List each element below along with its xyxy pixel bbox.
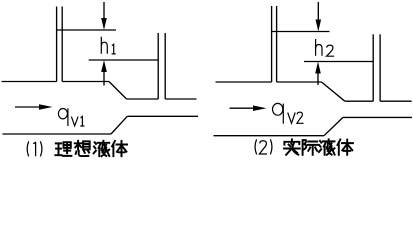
figure 1: pipe bottom contraction diagonal (111, 116, 127, 134)
figure 2: caption index (2) right parenthesis (270, 139, 272, 154)
figure 2: caption character SHI (real) (284, 139, 300, 154)
figure 2: label qv2 subscript 2 (297, 112, 304, 123)
figure 1: pipe top contraction diagonal (109, 82, 127, 100)
figure 2: caption character JI (boundary) (303, 140, 318, 155)
figure 1: water level line in tube P1 (56, 29, 116, 31)
figure 2: caption index (2) left parenthesis (255, 139, 257, 154)
figure 2: label h2 letter h (316, 39, 322, 56)
figure 2: piezometer tube P2 right wall (379, 34, 381, 101)
figure 2: caption character YE (liquid) (319, 139, 335, 154)
figure 2: pipe bottom wall wide section (214, 135, 325, 137)
figure 1: label qv1 subscript v (71, 117, 78, 126)
figure 1: pipe top wall right of tube P1 (62, 81, 109, 83)
figure 1: label qv1 subscript 1 (80, 116, 84, 126)
figure 1: caption index (1) digit 1 (33, 142, 36, 156)
figure 2: label qv2 letter q (273, 103, 284, 123)
figure 2: water level line of tube P2 (dimension reference) (304, 61, 373, 63)
figure 1: label h1 letter h (101, 37, 107, 54)
figure 2: label h2 subscript 2 (327, 45, 335, 56)
figure 1: narrow pipe top wall left of tube P2 (127, 98, 159, 100)
figure 2: pipe top wall right of tube P1 (277, 81, 322, 83)
figure 1: dimension h1 down arrowhead (101, 18, 107, 30)
figure 2: caption index (2) digit 2 (259, 141, 267, 154)
figure 2: narrow pipe top wall left of tube P2 (345, 100, 373, 102)
figure 2: pipe top contraction diagonal (322, 82, 345, 101)
figure 2: water level line in tube P1 (272, 31, 330, 33)
figure 1: piezometer tube P1 right wall (61, 7, 63, 82)
figure 2: dimension h2 lower arrow shaft (317, 67, 319, 85)
figure 2: dimension h2 upper arrow shaft (317, 2, 319, 25)
figure 1: caption character LI (reason) (55, 142, 71, 156)
figure 1: caption character TI (body) (112, 141, 127, 156)
figure 2: dimension h2 up arrowhead (315, 62, 321, 74)
figure 2: dimension h2 down arrowhead (316, 20, 322, 32)
figure 2: pipe top wall left of tube P1 (216, 81, 272, 83)
figure 1: caption index (1) left parenthesis (27, 141, 29, 156)
figure 1: dimension h1 upper arrow shaft (103, 2, 105, 24)
figure 2: piezometer tube P2 left wall (372, 34, 374, 101)
figure 2: narrow pipe bottom wall (343, 116, 412, 118)
figure 1: flow arrowhead (39, 104, 53, 110)
figure 1: piezometer tube P2 right wall (164, 33, 166, 99)
figure 2: pipe bottom contraction diagonal (324, 117, 343, 135)
figure 1: caption character XIANG (think) (75, 141, 90, 156)
figure 2: piezometer tube P1 left wall (271, 6, 273, 82)
figure 1: dimension h1 up arrowhead (101, 60, 107, 72)
figure 2: caption character TI (body) (338, 140, 353, 155)
figure 2: narrow pipe top wall right of tube P2 (380, 100, 412, 102)
figure 2: label qv2 subscript v (288, 113, 296, 124)
figure 2: flow arrow shaft (230, 107, 259, 109)
figure 1: piezometer tube P2 left wall (157, 33, 159, 99)
figure 1: label qv1 letter q (58, 108, 68, 126)
figure 1: narrow pipe top wall right of tube P2 (165, 98, 196, 100)
figure 1: flow arrow shaft (15, 106, 44, 108)
figure 1: pipe bottom wall wide section (3, 133, 112, 135)
figure 1: piezometer tube P1 left wall (56, 7, 58, 82)
figure 2: flow arrowhead (253, 105, 267, 111)
figure 1: caption index (1) right parenthesis (40, 141, 42, 156)
figure 1: narrow pipe bottom wall (127, 115, 198, 117)
figure 2: piezometer tube P1 right wall (276, 6, 278, 82)
figure 1: pipe top wall left of tube P1 (2, 81, 57, 83)
figure 1: dimension h1 lower arrow shaft (103, 66, 105, 86)
figure 1: label h1 subscript 1 (112, 44, 116, 54)
figure 1: water level line of tube P2 (dimension reference) (89, 59, 159, 61)
figure 1: caption character YE (liquid) (94, 141, 110, 156)
